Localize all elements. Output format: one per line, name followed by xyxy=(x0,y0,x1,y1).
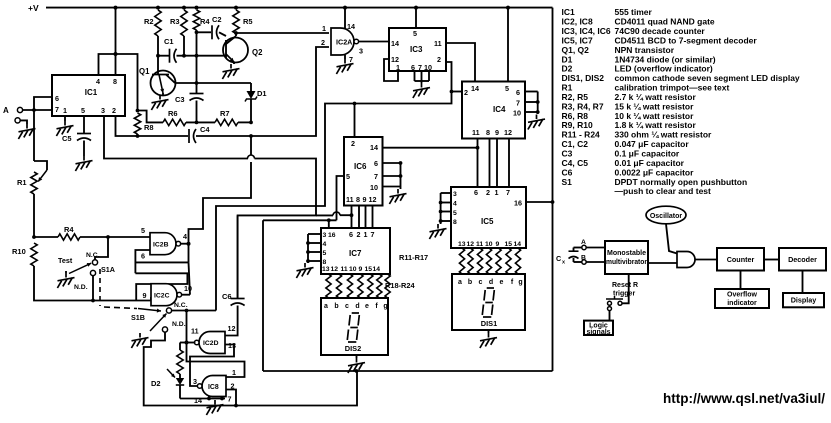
svg-text:2: 2 xyxy=(486,188,490,197)
wire IC2B output to IC2C output vertical xyxy=(188,244,190,263)
wire monostable output to AND xyxy=(648,262,677,264)
wire latch loop L1 xyxy=(135,261,188,263)
svg-text:1: 1 xyxy=(232,368,236,377)
svg-text:6: 6 xyxy=(411,63,415,72)
block oscillator ellipse xyxy=(646,206,686,224)
wire Q1 collector to D1 xyxy=(175,82,251,84)
svg-text:7: 7 xyxy=(55,105,59,114)
display DIS2 xyxy=(321,298,388,355)
svg-text:5: 5 xyxy=(453,210,457,217)
wire IC5 pin16 to +V xyxy=(526,201,553,203)
svg-text:4: 4 xyxy=(96,77,100,86)
svg-text:IC6: IC6 xyxy=(354,162,367,171)
seven segment digit DIS1 xyxy=(487,287,494,289)
wire D2 to IC8 ground wire xyxy=(179,385,181,399)
svg-text:C6: C6 xyxy=(222,292,232,301)
wire IC6 pins 6,7,10 bus xyxy=(383,162,401,164)
switch S1B NC contact xyxy=(166,308,171,313)
svg-text:12: 12 xyxy=(467,241,475,248)
wire R7 to D1 node xyxy=(238,121,251,123)
svg-text:DIS2: DIS2 xyxy=(345,344,361,353)
svg-text:9: 9 xyxy=(143,291,147,300)
wire IC1 pin2 node to C4 xyxy=(138,135,189,137)
wire IC2A pin14 to rail xyxy=(344,8,346,29)
terminal A xyxy=(17,107,22,112)
wire S1A NC to R4 node xyxy=(95,237,108,260)
svg-text:3: 3 xyxy=(193,377,197,386)
ground IC2A xyxy=(344,59,346,64)
wire R8 top jog to R6 xyxy=(138,111,164,123)
NAND gate IC8 mirrored xyxy=(202,376,226,397)
capacitor C3 xyxy=(190,93,204,95)
svg-text:S1A: S1A xyxy=(101,265,115,274)
resistor R3 xyxy=(181,10,187,36)
Q2 collector xyxy=(226,36,236,44)
svg-text:Reset R: Reset R xyxy=(612,282,638,289)
svg-text:11: 11 xyxy=(191,327,199,336)
wire IC2D output to IC8 pin1 xyxy=(187,343,245,378)
block monostable multivibrator xyxy=(605,241,648,274)
ground IC1 pin1 xyxy=(64,121,66,126)
svg-text:IC2C: IC2C xyxy=(154,292,170,299)
LED D2 arrows xyxy=(167,369,175,378)
svg-text:multivibrator: multivibrator xyxy=(606,259,647,266)
switch S1A ND contact xyxy=(90,270,95,275)
wire S1A ND down to R10 wire xyxy=(92,276,94,301)
NAND gate IC2C xyxy=(151,284,177,306)
wire D1 net to IC2B output node xyxy=(189,162,252,242)
svg-text:http://www.qsl.net/va3iul/: http://www.qsl.net/va3iul/ xyxy=(663,391,825,406)
svg-text:5: 5 xyxy=(141,226,145,235)
svg-text:9: 9 xyxy=(363,195,367,204)
svg-text:7: 7 xyxy=(228,395,232,404)
wire reset net to IC4 pin2 xyxy=(452,91,463,93)
svg-text:Monostable: Monostable xyxy=(607,250,646,257)
wire S1B NC to reset riser xyxy=(172,310,216,312)
wire R5 bottom to Q2 collector xyxy=(235,34,237,36)
wire reset branch to IC6 pin2 xyxy=(354,104,356,138)
svg-text:8: 8 xyxy=(356,195,360,204)
svg-text:—push to clear and test: —push to clear and test xyxy=(615,186,712,196)
svg-text:R11-R17: R11-R17 xyxy=(399,253,428,262)
svg-text:IC3: IC3 xyxy=(410,45,423,54)
svg-text:S1B: S1B xyxy=(131,313,145,322)
svg-text:5: 5 xyxy=(346,172,350,181)
svg-text:9: 9 xyxy=(495,128,499,137)
svg-text:c: c xyxy=(345,303,349,310)
wire R4 node to IC2B pin5 xyxy=(108,236,150,238)
resistor R5 xyxy=(233,10,239,34)
wire IC4 pin9 to IC5 pin1 xyxy=(496,139,498,188)
wire IC7 pin16 riser xyxy=(328,220,330,228)
svg-text:1: 1 xyxy=(364,230,368,239)
wire IC1 pin2 riser xyxy=(116,116,138,136)
wire DIS1 ground stub xyxy=(488,330,490,333)
svg-text:S1: S1 xyxy=(562,177,573,187)
svg-text:a: a xyxy=(324,303,328,310)
svg-text:9: 9 xyxy=(359,266,363,273)
svg-text:14: 14 xyxy=(471,84,479,93)
svg-text:C4: C4 xyxy=(200,125,210,134)
svg-text:R18-R24: R18-R24 xyxy=(385,281,415,290)
Q1 emitter with arrow xyxy=(159,75,163,94)
Q2 emitter with arrow xyxy=(226,54,234,62)
svg-text:e: e xyxy=(365,303,369,310)
trimpot R1 wiper arrow xyxy=(38,170,47,182)
switch S1B actuate arrow xyxy=(138,309,161,312)
ground test switch arm xyxy=(65,273,67,278)
svg-text:11: 11 xyxy=(472,128,480,137)
capacitor C5 xyxy=(77,133,91,135)
resistor R4 xyxy=(34,236,58,238)
svg-text:N.C.: N.C. xyxy=(174,302,188,309)
wire A to monostable xyxy=(586,247,605,249)
svg-text:g: g xyxy=(383,303,387,310)
svg-text:6: 6 xyxy=(374,159,378,168)
capacitor C6 xyxy=(237,215,239,298)
svg-text:R2: R2 xyxy=(144,17,154,26)
svg-text:14: 14 xyxy=(391,39,399,48)
svg-text:1: 1 xyxy=(396,63,400,72)
svg-text:7: 7 xyxy=(371,230,375,239)
capacitor C2 xyxy=(197,31,212,33)
svg-text:IC5: IC5 xyxy=(481,217,494,226)
terminal B xyxy=(15,118,20,123)
diode D1 zener xyxy=(250,83,252,91)
svg-text:A: A xyxy=(3,106,9,115)
svg-text:IC1: IC1 xyxy=(85,88,98,97)
svg-text:d: d xyxy=(355,303,359,310)
svg-text:6: 6 xyxy=(349,230,353,239)
block decoder xyxy=(779,248,826,271)
svg-text:Counter: Counter xyxy=(727,255,755,264)
wire IC4 pins 6,7,10 bus xyxy=(525,91,538,93)
Q1 base lead from R2/C1 node xyxy=(157,56,159,75)
display DIS1 xyxy=(452,274,525,330)
wire IC1 pin3 net hop over IC6 pin5 riser xyxy=(316,214,333,216)
wire A node down to R1 xyxy=(33,110,35,161)
wire IC1 pin3 long run xyxy=(104,116,248,159)
wire pushbutton to logic signals xyxy=(608,307,612,311)
svg-text:11: 11 xyxy=(341,266,348,273)
wire IC8 ground rail xyxy=(180,398,225,400)
svg-text:c: c xyxy=(479,279,483,286)
terminal A block xyxy=(582,245,586,249)
svg-text:11: 11 xyxy=(434,39,442,48)
svg-text:2: 2 xyxy=(437,55,441,64)
svg-text:14: 14 xyxy=(370,143,378,152)
wire IC1 pin8 to +V rail xyxy=(115,8,117,75)
svg-text:a: a xyxy=(458,279,462,286)
ground below Q1 xyxy=(159,95,161,100)
block display xyxy=(783,293,824,307)
svg-text:10: 10 xyxy=(370,183,378,192)
wire +V riser left end xyxy=(262,220,264,371)
wire latch loop L2 xyxy=(135,273,187,300)
svg-text:R1: R1 xyxy=(17,178,27,187)
svg-text:R7: R7 xyxy=(220,109,230,118)
wire C2 to Q2 base xyxy=(219,32,226,36)
svg-text:12: 12 xyxy=(228,324,236,333)
wire +V right side vertical xyxy=(552,8,554,371)
wire IC3 pin5 to rail xyxy=(415,8,417,28)
ground IC3 xyxy=(421,83,423,88)
wire S1B ND staircase to +V bottom wire xyxy=(144,332,357,405)
ground IC4 xyxy=(537,112,539,114)
svg-text:2: 2 xyxy=(112,106,116,115)
wire counter to decoder xyxy=(764,259,779,261)
wire IC3 pin2 reset net xyxy=(446,62,452,92)
ground IC5 xyxy=(440,221,442,224)
svg-text:8: 8 xyxy=(486,128,490,137)
svg-text:8: 8 xyxy=(113,77,117,86)
wire IC7 left pins bus xyxy=(308,233,321,235)
wire C5 to ground xyxy=(83,141,85,157)
IC U5 CD4511 IC5 xyxy=(451,187,526,248)
svg-text:D1: D1 xyxy=(257,89,267,98)
wire B to monostable xyxy=(586,261,605,263)
wire IC4 pin11 node to IC6 pin14 xyxy=(383,147,478,149)
svg-text:C3: C3 xyxy=(175,95,185,104)
wire IC4 pin8 to IC5 pin2 xyxy=(489,139,491,188)
svg-text:14: 14 xyxy=(514,241,522,248)
trimpot R1 wiper loop xyxy=(34,161,47,170)
svg-text:12: 12 xyxy=(504,128,512,137)
wire C3 to R6/R7 wire xyxy=(196,101,198,123)
svg-text:5: 5 xyxy=(505,84,509,93)
svg-text:D2: D2 xyxy=(151,379,161,388)
svg-text:C1: C1 xyxy=(164,37,174,46)
svg-text:N.D.: N.D. xyxy=(74,284,88,291)
svg-text:15: 15 xyxy=(365,266,373,273)
wire +V bottom bus xyxy=(263,370,553,372)
svg-text:7: 7 xyxy=(418,63,422,72)
wire IC4 pin11 to IC5 pin6 xyxy=(477,139,479,188)
wire reset net down-left run xyxy=(216,92,452,311)
wire IC2D pin13 cross-couple xyxy=(190,345,234,387)
wire IC2A output to IC3 pin14 xyxy=(359,41,389,43)
wire Q2 collector node to IC2A pin1 xyxy=(236,32,329,34)
svg-text:10: 10 xyxy=(424,63,432,72)
svg-text:4: 4 xyxy=(183,232,187,241)
capacitor C4 xyxy=(188,129,190,143)
switch S1A-S1B linkage dashes xyxy=(99,269,101,306)
svg-text:3: 3 xyxy=(101,106,105,115)
svg-text:4: 4 xyxy=(453,201,457,208)
svg-text:6: 6 xyxy=(516,88,520,97)
wire R10 to IC2C pin9 row xyxy=(34,266,151,301)
ground DIS2 xyxy=(356,358,358,363)
svg-text:13: 13 xyxy=(458,241,466,248)
wire R4 to S1A NC node xyxy=(80,236,108,238)
resistor R1 xyxy=(31,172,37,194)
wire pin4/8 node to R8 xyxy=(116,54,138,111)
svg-text:R4: R4 xyxy=(200,17,210,26)
svg-text:DIS1: DIS1 xyxy=(481,319,497,328)
svg-text:11: 11 xyxy=(346,195,354,204)
ground S1B xyxy=(139,333,141,338)
resistors R11-R17 xyxy=(459,248,464,274)
wire R1 to R4 node xyxy=(33,194,35,237)
wire D1 node down crossing xyxy=(250,136,252,155)
wire +V run to IC7 pin16 xyxy=(263,219,337,221)
wire IC2A pin7 ground stub xyxy=(344,55,346,59)
svg-text:8: 8 xyxy=(323,259,327,266)
wire R4 node down to C3 xyxy=(196,32,198,93)
wire IC2B output node xyxy=(181,243,189,245)
svg-text:9: 9 xyxy=(496,241,500,248)
wire IC1 pin7 to input terminal A xyxy=(23,109,52,111)
svg-text:13: 13 xyxy=(322,266,330,273)
svg-text:14: 14 xyxy=(194,396,202,405)
svg-text:indicator: indicator xyxy=(727,300,757,307)
NAND gate IC2A xyxy=(331,28,354,55)
svg-text:Overflow: Overflow xyxy=(727,292,758,299)
wire IC4 pin5 to rail xyxy=(507,8,509,82)
resistor R7 xyxy=(215,119,238,125)
wire IC8 pin7 stub xyxy=(221,397,223,399)
wire IC6 pin12 to IC7 pin7 xyxy=(372,206,374,229)
pushbutton reset xyxy=(608,301,612,305)
svg-text:R3: R3 xyxy=(170,17,180,26)
IC U3 74C90 IC3 xyxy=(389,28,446,71)
IC U4 74C90 IC4 xyxy=(462,82,525,139)
svg-text:Display: Display xyxy=(791,296,817,305)
IC U1 555 timer IC1 xyxy=(52,75,125,116)
wire IC3 pin11 to IC4 pin14 xyxy=(446,43,475,82)
svg-text:R8: R8 xyxy=(144,123,154,132)
svg-text:IC2A: IC2A xyxy=(336,38,352,47)
wire +V top rail xyxy=(46,7,553,9)
svg-text:IC2D: IC2D xyxy=(203,340,219,347)
resistor R4 top xyxy=(193,10,199,30)
svg-text:14: 14 xyxy=(347,22,355,31)
svg-text:5: 5 xyxy=(413,29,417,38)
svg-text:2: 2 xyxy=(321,38,325,47)
svg-text:2: 2 xyxy=(464,88,468,97)
svg-text:R5: R5 xyxy=(243,17,253,26)
svg-text:6: 6 xyxy=(474,188,478,197)
svg-text:Q2: Q2 xyxy=(252,48,263,57)
svg-text:IC8: IC8 xyxy=(208,384,219,391)
wire IC2D output node xyxy=(187,342,196,344)
svg-text:3: 3 xyxy=(323,232,327,239)
wire decoder to display xyxy=(802,271,804,294)
svg-text:Test: Test xyxy=(58,256,73,265)
wire IC4 pin12 to IC5 pin7 xyxy=(508,139,510,188)
wire R6 to C3 node xyxy=(186,121,215,123)
wire C6 to IC2D pin12 xyxy=(225,306,238,336)
svg-text:12: 12 xyxy=(369,195,377,204)
svg-text:IC7: IC7 xyxy=(349,249,362,258)
block logic signals xyxy=(584,321,613,335)
seven segment digit DIS2 xyxy=(352,312,359,314)
wire Q2 emitter to ground xyxy=(233,62,235,64)
svg-text:e: e xyxy=(500,279,504,286)
wire IC1 pin1 stub xyxy=(64,116,66,121)
svg-text:10: 10 xyxy=(184,284,192,293)
svg-text:1: 1 xyxy=(63,106,67,115)
capacitor Cx xyxy=(574,247,582,249)
wire IC1 pin4 branch xyxy=(99,54,116,75)
svg-text:10: 10 xyxy=(349,266,357,273)
resistor R8 xyxy=(134,113,140,134)
NAND gate IC2B xyxy=(150,233,176,255)
wire C4 to D1 bottom node xyxy=(196,135,251,137)
svg-text:2: 2 xyxy=(351,139,355,148)
svg-text:7: 7 xyxy=(516,99,520,108)
resistor R2 xyxy=(155,10,161,36)
AND gate block xyxy=(677,252,695,268)
svg-text:2: 2 xyxy=(357,230,361,239)
svg-text:7: 7 xyxy=(506,188,510,197)
svg-text:6: 6 xyxy=(141,252,145,261)
IC U7 CD4511 IC7 xyxy=(321,228,390,274)
svg-text:C2: C2 xyxy=(212,15,222,24)
Q1 base bar xyxy=(152,74,169,76)
wire oscillator to AND gate xyxy=(666,224,677,254)
svg-text:1: 1 xyxy=(322,24,326,33)
wire IC2C output stub xyxy=(182,294,190,296)
LED D2 xyxy=(179,374,181,378)
wire C4 net to IC2A pin2 riser xyxy=(251,47,329,136)
wire AND to counter xyxy=(695,259,717,261)
svg-text:B: B xyxy=(581,255,586,262)
wire C1 node to Q2 base bar xyxy=(184,55,226,57)
resistor R6 xyxy=(163,119,186,125)
svg-text:N.C.: N.C. xyxy=(86,252,100,259)
wire D1 cathode down xyxy=(250,99,252,122)
wire pushbutton to monostable xyxy=(622,274,629,303)
svg-text:10: 10 xyxy=(513,109,521,118)
svg-text:+V: +V xyxy=(28,3,39,13)
svg-text:Decoder: Decoder xyxy=(788,255,817,264)
wire IC3 pins 6,7,10 to ground xyxy=(414,71,416,81)
svg-text:signals: signals xyxy=(586,329,610,336)
wire counter to overflow indicator xyxy=(740,271,742,290)
svg-text:16: 16 xyxy=(514,199,522,208)
wire terminal B to ground xyxy=(20,120,27,124)
switch S1B arm xyxy=(150,314,167,332)
svg-text:8: 8 xyxy=(453,219,457,226)
svg-text:12: 12 xyxy=(331,266,339,273)
wire IC8 pin14 stub xyxy=(208,397,210,399)
svg-text:5: 5 xyxy=(323,250,327,257)
svg-text:7: 7 xyxy=(349,55,353,64)
svg-text:16: 16 xyxy=(328,232,336,239)
svg-text:C5: C5 xyxy=(62,134,72,143)
switch S1B ND contact xyxy=(162,327,167,332)
svg-text:IC2B: IC2B xyxy=(153,241,169,248)
block overflow indicator xyxy=(715,289,769,308)
wire IC2B pin6 loop xyxy=(135,250,150,273)
capacitor C1 xyxy=(158,55,169,57)
wire IC2D output to S1B NC net xyxy=(186,311,188,343)
wire IC1 pin6 xyxy=(34,97,52,110)
svg-text:trigger: trigger xyxy=(613,291,635,298)
svg-text:d: d xyxy=(489,279,493,286)
wire IC5 left pins bus xyxy=(441,192,451,194)
wire R4 to C2 node xyxy=(196,30,198,32)
Q2 base bar xyxy=(225,40,227,58)
ground IC7 xyxy=(307,261,309,263)
svg-text:Oscillator: Oscillator xyxy=(650,213,683,220)
svg-text:N.D.: N.D. xyxy=(172,321,186,328)
ground below Q2 xyxy=(230,64,232,69)
wire DIS2 ground stub xyxy=(356,355,358,358)
svg-text:15: 15 xyxy=(505,241,513,248)
transistor Q1 xyxy=(151,71,176,96)
